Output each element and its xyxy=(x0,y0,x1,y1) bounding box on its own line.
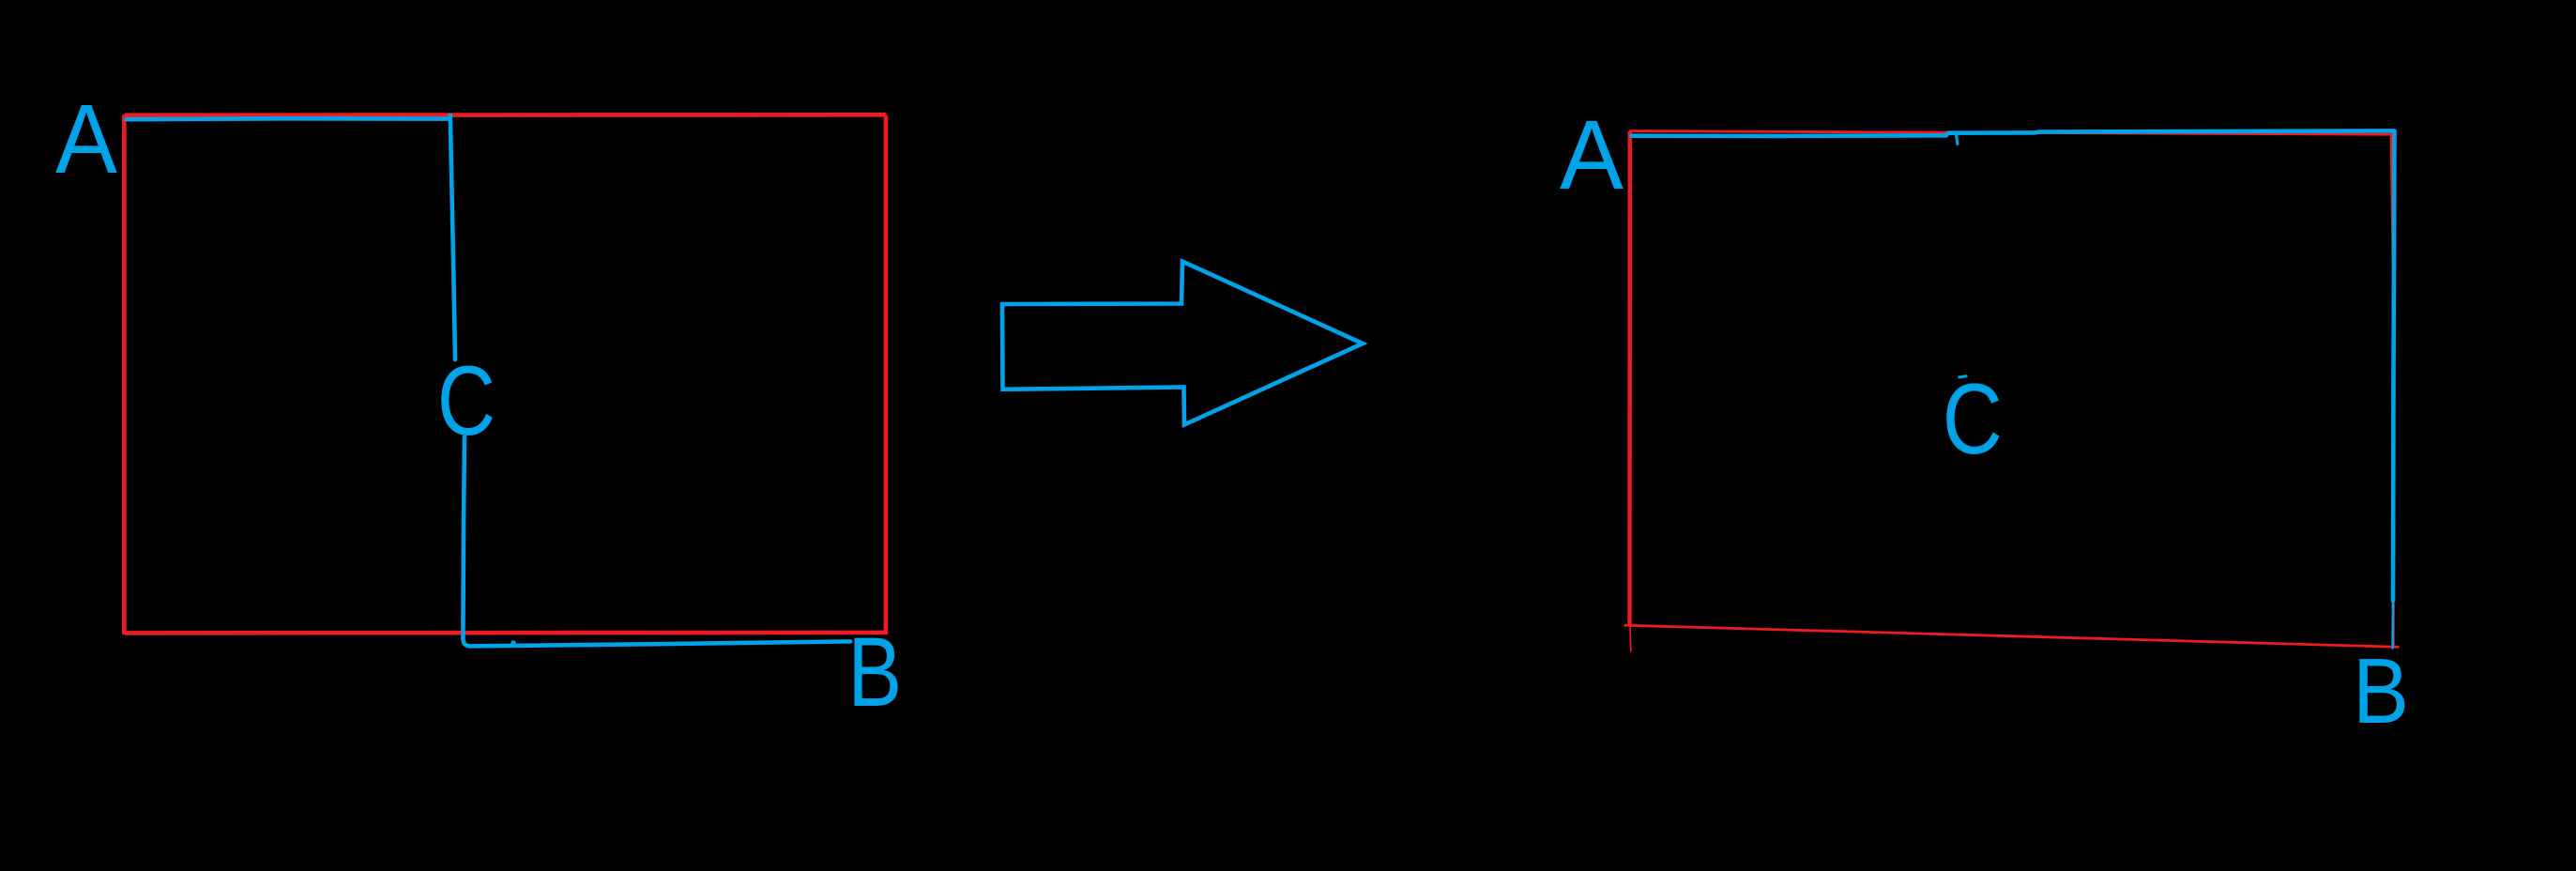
svg-text:A: A xyxy=(55,84,117,193)
thinner lower part of blue right edge (right figure) xyxy=(2391,601,2394,649)
small blue dash above C (right figure) xyxy=(1959,376,1966,377)
small ink dot on bottom blue line (left figure) xyxy=(511,640,515,645)
svg-text:A: A xyxy=(1560,99,1623,210)
svg-text:C: C xyxy=(1943,362,2003,475)
right edge xyxy=(2391,133,2394,647)
red quadrilateral (right figure) xyxy=(1624,131,2400,648)
blue traced edge A-top-right-B (right figure) xyxy=(1632,130,2395,601)
top edge xyxy=(1629,131,2390,135)
block arrow (center) xyxy=(1002,262,1363,425)
small blue tick on top edge (right figure) xyxy=(1957,135,1959,145)
svg-text:B: B xyxy=(847,618,902,727)
svg-text:C: C xyxy=(437,346,495,456)
svg-text:B: B xyxy=(2353,640,2409,742)
left edge xyxy=(1627,131,1632,626)
thin red overshoot below bottom-left corner (right figure) xyxy=(1629,625,1632,652)
red square (left figure) xyxy=(124,115,888,634)
blue fold line A-C-B (left figure) xyxy=(127,115,851,646)
bottom edge xyxy=(1624,625,2400,647)
